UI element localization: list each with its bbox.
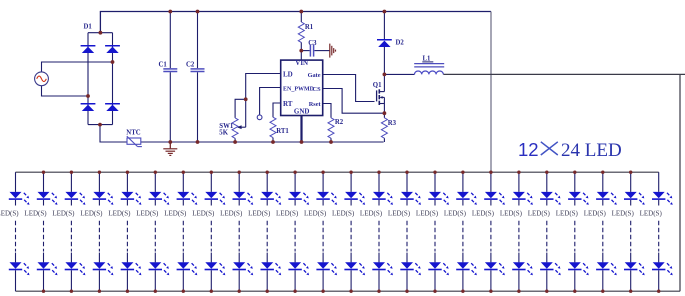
- svg-text:C3: C3: [308, 40, 317, 47]
- svg-text:D1: D1: [84, 24, 93, 31]
- svg-text:12: 12: [518, 139, 539, 160]
- svg-text:R1: R1: [305, 24, 314, 31]
- svg-text:GND: GND: [294, 108, 310, 116]
- svg-text:VIN: VIN: [295, 59, 308, 67]
- svg-text:RT1: RT1: [276, 128, 289, 135]
- svg-text:NTC: NTC: [126, 129, 140, 136]
- svg-text:LD: LD: [283, 71, 293, 79]
- svg-text:CS: CS: [313, 86, 322, 93]
- svg-text:Q1: Q1: [373, 82, 382, 89]
- svg-text:RT: RT: [283, 100, 293, 108]
- svg-text:R2: R2: [335, 119, 344, 126]
- svg-text:EN_PWMD: EN_PWMD: [283, 86, 315, 92]
- svg-text:D2: D2: [396, 39, 405, 46]
- svg-text:Gate: Gate: [308, 72, 321, 79]
- svg-text:24 LED: 24 LED: [561, 140, 622, 161]
- svg-text:5K: 5K: [219, 130, 228, 137]
- svg-text:C2: C2: [186, 62, 195, 69]
- svg-text:R3: R3: [388, 120, 397, 127]
- svg-text:Rset: Rset: [309, 101, 322, 108]
- svg-text:C1: C1: [159, 62, 168, 69]
